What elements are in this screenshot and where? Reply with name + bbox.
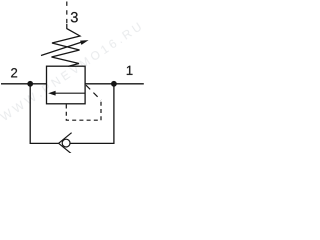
flow path arrow inside valve bbox=[48, 91, 85, 96]
wire: port 2 line bbox=[1, 83, 47, 85]
valve body bbox=[47, 66, 86, 104]
label: port 1 bbox=[127, 66, 133, 75]
wire: pilot dashed sensing line (run) bbox=[66, 100, 101, 120]
label: port 3 bbox=[71, 12, 78, 22]
junction dot right bbox=[111, 81, 117, 87]
wire: bypass left branch bbox=[30, 84, 59, 144]
junction dot left bbox=[27, 81, 33, 87]
wire: port 1 line bbox=[85, 83, 144, 85]
label: port 2 bbox=[11, 68, 17, 77]
spring bbox=[52, 24, 81, 66]
adjustment arrow bbox=[41, 40, 89, 55]
check valve bbox=[59, 133, 72, 154]
wire: pilot dashed sensing line bbox=[86, 85, 101, 100]
wire: bypass right branch bbox=[70, 84, 114, 144]
wire: pilot port 3 dashed line bbox=[66, 2, 68, 25]
